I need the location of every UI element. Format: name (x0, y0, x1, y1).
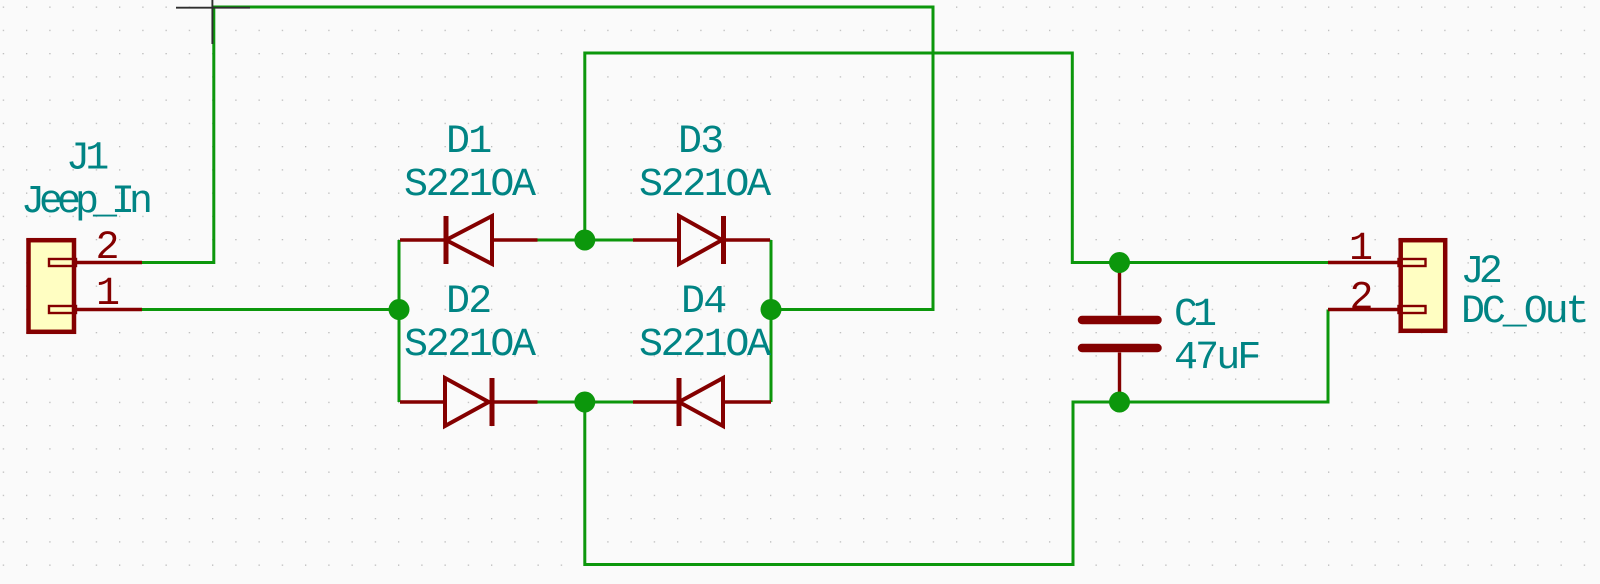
svg-text:D1: D1 (446, 120, 491, 165)
svg-text:J1: J1 (66, 137, 108, 182)
svg-text:Jeep_In: Jeep_In (21, 180, 150, 225)
svg-text:1: 1 (1349, 227, 1373, 272)
svg-text:2: 2 (95, 226, 119, 271)
svg-text:D3: D3 (678, 120, 722, 165)
svg-text:D2: D2 (446, 280, 490, 325)
svg-text:47uF: 47uF (1174, 336, 1259, 381)
svg-text:DC_Out: DC_Out (1461, 290, 1586, 335)
svg-text:S221OA: S221OA (404, 323, 536, 368)
svg-text:1: 1 (96, 272, 120, 317)
svg-text:C1: C1 (1174, 293, 1216, 338)
svg-text:J2: J2 (1461, 250, 1501, 295)
svg-text:S221OA: S221OA (404, 163, 536, 208)
svg-text:S221OA: S221OA (639, 323, 771, 368)
svg-text:S221OA: S221OA (639, 163, 771, 208)
svg-text:2: 2 (1349, 277, 1373, 322)
svg-text:D4: D4 (681, 280, 725, 325)
